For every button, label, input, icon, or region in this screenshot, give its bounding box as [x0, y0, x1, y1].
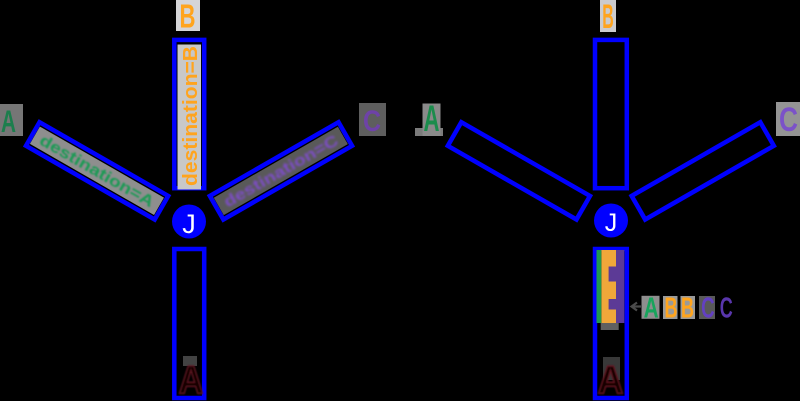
pipe A (right diagram, diagonal) [448, 122, 590, 219]
svg-text:A: A [1, 103, 16, 139]
svg-text:B: B [665, 293, 678, 325]
node label A (right) [415, 98, 443, 139]
queued packets: orange BB strip with teeth [601, 250, 616, 323]
motion blur blob under strips (right) [601, 323, 619, 330]
node label C (right) [776, 101, 800, 139]
svg-text:J: J [182, 209, 196, 239]
svg-text:B: B [180, 0, 196, 35]
node label B (right) [600, 0, 616, 36]
svg-text:B: B [602, 0, 614, 36]
arrow for sequence label [632, 303, 642, 311]
svg-text:J: J [605, 209, 618, 237]
faded packet blob (right) [603, 357, 620, 380]
label strip destination=B [178, 45, 202, 190]
node label C (left) [359, 103, 386, 138]
svg-text:destination=B: destination=B [180, 46, 202, 186]
sequence letter A [642, 293, 660, 325]
queued packets: green A strip [597, 250, 602, 323]
sequence letter B [663, 293, 678, 325]
faded packet blob (left) [183, 356, 197, 366]
output pipe (right diagram, bottom) [595, 249, 627, 398]
pipe B (right diagram, vertical) [595, 40, 627, 188]
pipe C (right diagram, diagonal) [632, 122, 774, 219]
svg-text:A: A [598, 359, 624, 401]
pipe A (left diagram, diagonal) [26, 122, 168, 219]
sequence letter B2 [681, 293, 696, 325]
svg-text:A: A [644, 293, 659, 325]
svg-text:B: B [681, 293, 694, 325]
node label B (left) [176, 0, 200, 35]
junction node J (left) [172, 205, 206, 239]
svg-text:C: C [701, 293, 715, 325]
svg-text:C: C [363, 105, 381, 138]
svg-text:A: A [179, 359, 204, 401]
node label A (left) [0, 103, 23, 139]
label strip destination=A [30, 127, 164, 215]
pipe C (left diagram, diagonal) [210, 122, 352, 219]
svg-text:A: A [424, 98, 440, 139]
output pipe (left diagram, bottom) [174, 249, 204, 398]
sequence letter C [699, 293, 715, 325]
svg-text:C: C [720, 293, 733, 325]
label strip destination=C [214, 127, 348, 215]
sequence letter C2 [720, 293, 733, 325]
queued packets in output pipe (right): purple CC strip [608, 250, 624, 323]
svg-text:C: C [779, 101, 798, 139]
pipe B (left diagram, vertical) [174, 40, 204, 190]
junction node J (right) [594, 204, 628, 238]
